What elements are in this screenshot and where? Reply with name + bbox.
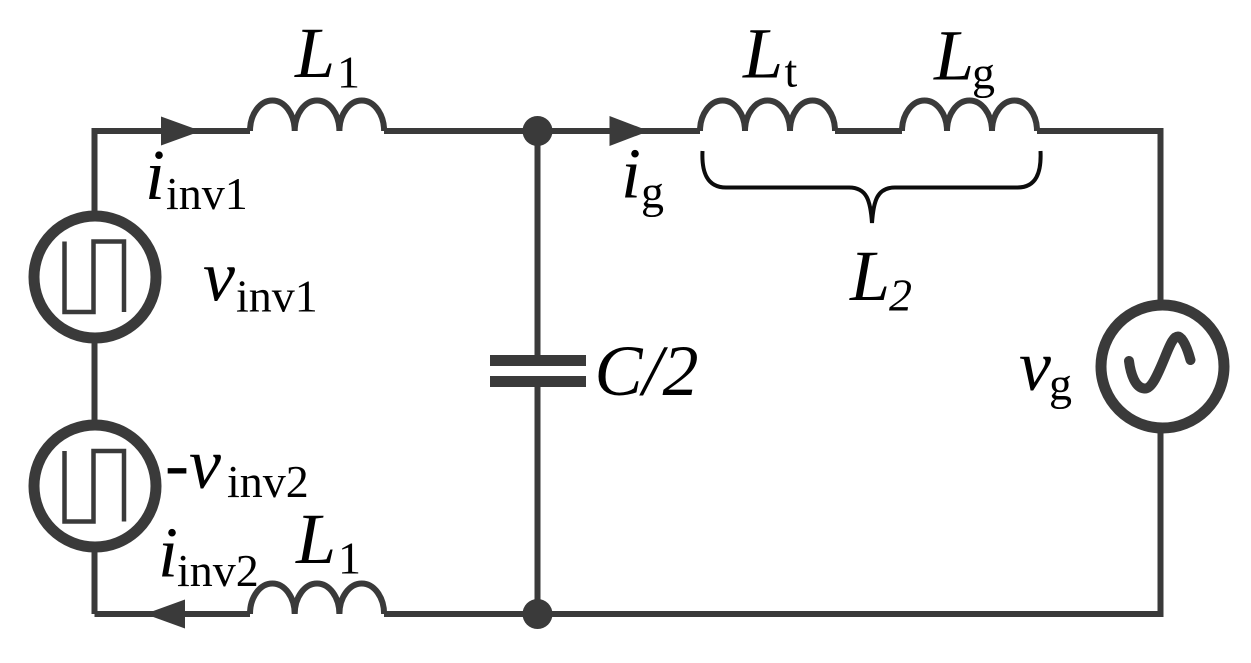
wire capacitor bottom lead [535,387,541,614]
wire bottom rail from L1 through node B to bottom-right corner up to v_g [384,428,1161,614]
svg-text:inv1: inv1 [236,271,318,322]
svg-text:L: L [849,236,890,316]
svg-text:-v: -v [165,424,221,504]
square-wave glyph of v_inv2 [65,451,125,522]
wire bottom rail from corner to L1 bottom [95,611,251,617]
svg-text:1: 1 [337,47,360,98]
sine glyph of v_g [1129,337,1191,389]
node A junction dot top [523,116,553,146]
svg-text:2: 2 [889,270,912,321]
wire capacitor top lead [535,131,541,355]
capacitor C/2 bottom plate [490,376,586,387]
inductor L1 bottom [250,583,384,614]
inductor Lt [700,100,835,131]
svg-text:g: g [972,48,995,99]
svg-text:i: i [621,134,641,214]
svg-text:inv2: inv2 [177,545,259,596]
square-wave glyph of v_inv1 [65,242,125,313]
arrow for current i_inv1 [161,117,201,146]
svg-text:v: v [1019,326,1051,406]
wire from v_inv1 top up to top-left corner and right to L1 [95,131,251,214]
wire between v_inv1 and v_inv2 [92,338,98,424]
svg-text:L: L [294,13,335,93]
inductor L1 top [250,100,384,131]
svg-text:L: L [933,16,974,96]
capacitor C/2 top plate [490,355,586,366]
wire from v_inv2 down to bottom-left corner [92,547,98,614]
arrow for current i_g [610,116,650,146]
svg-text:L: L [742,14,783,94]
wire from L1 to node A and on toward Lt [384,128,700,134]
source V1 circle (square-wave source v_inv1) [34,216,156,338]
source Vg circle (sine source v_g) [1101,305,1224,428]
wire from Lg to top-right corner down to v_g [1037,131,1161,303]
svg-text:v: v [203,237,235,317]
svg-text:g: g [641,167,664,218]
svg-text:inv1: inv1 [166,168,248,219]
svg-text:t: t [785,46,798,97]
svg-text:1: 1 [338,533,361,584]
inductor Lg [902,100,1037,131]
wire between Lt and Lg [835,128,902,134]
node B junction dot bottom [523,599,553,629]
svg-text:i: i [158,513,178,593]
arrow for current i_inv2 [145,600,185,629]
brace grouping Lt and Lg as L2 [702,151,1040,223]
svg-text:g: g [1049,359,1072,410]
source V2 circle (square-wave source v_inv2) [34,425,156,547]
svg-text:C/2: C/2 [595,331,699,411]
svg-text:i: i [145,135,165,215]
svg-text:L: L [295,499,336,579]
